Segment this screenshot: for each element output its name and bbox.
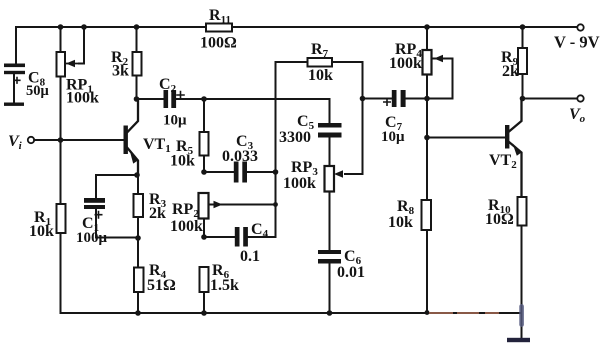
potentiometer RP1 — [57, 27, 85, 140]
svg-text:10k: 10k — [388, 214, 413, 231]
resistor R3 — [134, 175, 144, 238]
node Vi-RP1-R1 — [58, 137, 64, 143]
wire collector node to C2 — [137, 98, 165, 100]
svg-text:VT1: VT1 — [143, 136, 171, 155]
svg-text:Vi: Vi — [8, 133, 23, 152]
potentiometer RP3 — [325, 166, 344, 250]
svg-text:2k: 2k — [149, 205, 166, 222]
resistor R1 — [57, 140, 66, 313]
svg-text:VT2: VT2 — [489, 152, 517, 171]
svg-text:100k: 100k — [170, 218, 203, 235]
svg-text:R11: R11 — [209, 7, 231, 26]
node emitter junction — [134, 172, 140, 178]
capacitor C8 — [4, 64, 25, 104]
svg-text:100k: 100k — [66, 90, 99, 107]
svg-text:C2: C2 — [159, 76, 177, 95]
wire RP4 node down to base node — [426, 99, 428, 138]
node rail-C6 — [327, 310, 333, 316]
svg-text:10Ω: 10Ω — [485, 211, 514, 228]
capacitor C7 — [384, 90, 427, 107]
svg-text:2k: 2k — [502, 63, 519, 80]
svg-text:3300: 3300 — [279, 129, 311, 146]
node C3 right on feedback line — [273, 169, 279, 175]
node rail-R6 — [201, 310, 207, 316]
ground bar below C8 — [4, 103, 24, 106]
svg-text:10μ: 10μ — [381, 129, 405, 145]
transistor VT1 — [124, 99, 139, 175]
capacitor C1 — [84, 198, 138, 238]
svg-text:10k: 10k — [29, 223, 54, 240]
node R5-C3-RP2 — [201, 169, 207, 175]
resistor R11 — [206, 24, 232, 32]
svg-text:100Ω: 100Ω — [200, 35, 237, 52]
svg-text:100k: 100k — [283, 175, 316, 192]
node rail-R9 — [520, 24, 526, 30]
wire C8 branch from rail — [15, 27, 17, 63]
node VT1 collector / R2 / C2 — [134, 96, 140, 102]
resistor R7 — [276, 58, 363, 67]
svg-text:1.5k: 1.5k — [210, 277, 239, 294]
wire top power rail — [16, 26, 577, 28]
svg-text:50μ: 50μ — [26, 83, 50, 99]
node R7-C7-RP3wiper — [360, 96, 366, 102]
wire feedback left vertical (R7 left to C3/C4 node) — [275, 62, 277, 237]
capacitor C5 — [318, 123, 342, 166]
svg-text:100k: 100k — [389, 55, 422, 72]
capacitor C2 — [164, 90, 205, 108]
svg-text:R7: R7 — [311, 41, 329, 60]
node rail-RP4 — [424, 24, 430, 30]
wire R3 branch — [96, 175, 138, 198]
svg-text:0.01: 0.01 — [337, 264, 365, 281]
resistor R9 — [518, 27, 527, 99]
node RP2-C4-R6 — [201, 234, 207, 240]
wire Vo — [523, 98, 578, 100]
node R9 / VT2 collector / Vo — [520, 96, 526, 102]
svg-text:10k: 10k — [308, 67, 333, 84]
node rail-R2 — [134, 24, 140, 30]
svg-text:10k: 10k — [170, 153, 195, 170]
node rail-R8 — [425, 310, 430, 315]
terminal Vi — [28, 137, 34, 143]
node R3-C1-R4 — [135, 235, 141, 241]
resistor R4 — [134, 238, 144, 313]
ground symbol bottom right — [507, 304, 530, 342]
svg-text:51Ω: 51Ω — [147, 277, 176, 294]
svg-text:3k: 3k — [112, 63, 129, 80]
svg-text:Vo: Vo — [569, 106, 586, 125]
resistor R8 — [422, 138, 432, 314]
svg-text:0.033: 0.033 — [222, 148, 258, 165]
wire C2 node to C5 elbow — [204, 99, 330, 123]
capacitor C4 — [204, 227, 276, 247]
node rail-RP1 wiper — [81, 24, 87, 30]
resistor R5 — [200, 99, 209, 172]
svg-text:C4: C4 — [251, 221, 269, 240]
resistor R2 — [133, 27, 142, 99]
capacitor C6 — [318, 250, 341, 313]
node RP2 wiper on feedback line — [273, 202, 278, 207]
node rail-R4 — [135, 310, 141, 316]
potentiometer RP4 — [423, 27, 453, 99]
wire bottom ground rail — [61, 312, 522, 314]
potentiometer RP2 — [199, 193, 276, 237]
resistor R10 — [518, 197, 527, 313]
wire C7 line — [363, 98, 393, 100]
svg-text:V - 9V: V - 9V — [554, 33, 600, 52]
wire feedback right vertical (R7 right to RP3 wiper) — [345, 62, 363, 174]
node C2-R5 — [201, 96, 207, 102]
wire Vi to VT1 base — [34, 139, 123, 141]
resistor R6 — [200, 267, 209, 313]
wire to VT2 base — [427, 137, 505, 139]
capacitor C3 — [204, 162, 276, 183]
node R8 / VT2 base — [424, 135, 430, 141]
terminal V-9V — [577, 24, 583, 30]
svg-text:100μ: 100μ — [76, 230, 108, 246]
wire brown tinted rail segment — [430, 312, 498, 314]
svg-text:10μ: 10μ — [163, 113, 187, 129]
node rail-RP1 — [58, 24, 64, 30]
terminal Vo — [577, 95, 583, 101]
node RP4 bottom / C7 — [424, 96, 430, 102]
transistor VT2 — [505, 99, 522, 198]
svg-text:0.1: 0.1 — [240, 248, 260, 265]
